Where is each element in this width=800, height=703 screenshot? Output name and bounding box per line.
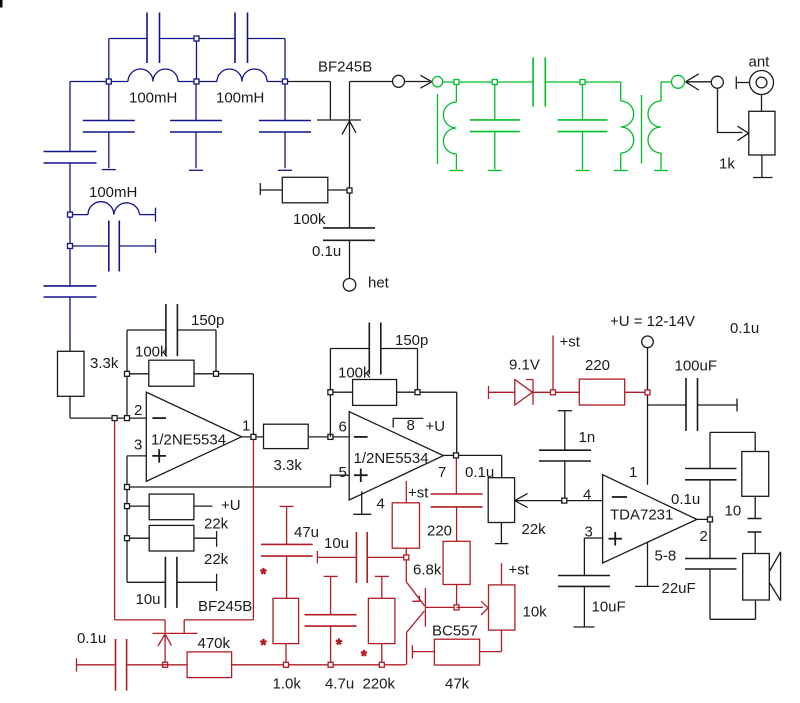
svg-text:TDA7231: TDA7231 (610, 507, 673, 524)
pin 5 wire (127, 475, 349, 487)
resistor 100k feedback (127, 373, 149, 375)
node (127,418.1) (125, 416, 130, 421)
svg-text:100k: 100k (135, 344, 168, 361)
capacitor green shunt 1 (494, 82, 496, 120)
capacitor green shunt 2 (582, 82, 584, 120)
node (330.4,392.2) (328, 390, 333, 395)
wire red from pin2 node down (115, 421, 166, 620)
svg-text:0.1u: 0.1u (312, 243, 341, 260)
wire to 10 resistor (710, 432, 755, 451)
svg-text:*: * (336, 636, 342, 653)
svg-text:+U: +U (426, 418, 446, 435)
svg-text:9.1V: 9.1V (509, 357, 540, 374)
svg-text:5-8: 5-8 (655, 548, 677, 565)
resistor 22k upper (127, 505, 149, 507)
svg-text:0.1u: 0.1u (671, 491, 700, 508)
svg-text:ant: ant (749, 54, 771, 71)
op-amp U3 TDA7231 triangle (603, 475, 697, 563)
node red (164.8,664.8) (163, 662, 168, 667)
resistor 220 (supply) (579, 379, 624, 405)
node red (286,664.8) (284, 662, 289, 667)
svg-text:6.8k: 6.8k (413, 562, 442, 579)
svg-text:22k: 22k (204, 516, 229, 533)
inductor L3 100mH (70, 214, 88, 216)
resistor 47k: open pin (411, 645, 413, 658)
svg-text:220k: 220k (363, 676, 396, 693)
capacitor C-top2 plates (235, 13, 248, 64)
svg-text:+st: +st (509, 562, 530, 579)
open pin under 10uF (574, 626, 595, 628)
node blue (196.5,81.5) (194, 79, 199, 84)
capacitor C-left (series in left column) (44, 152, 97, 164)
resistor 22k lower (127, 537, 149, 539)
potentiometer 22k box (488, 478, 514, 523)
arrow out of green filter (686, 74, 712, 90)
open pin under shunt cap 2 (576, 170, 590, 172)
capacitor C5 plates (44, 286, 97, 297)
open pin under 1k (753, 177, 773, 179)
minus sign U2 (354, 436, 368, 438)
open pin 5-8 bar (635, 585, 659, 587)
node blue (70,214.6) (68, 212, 73, 217)
node (114.6,418.1) (112, 416, 117, 421)
wire TDA output (697, 519, 710, 558)
svg-text:22k: 22k (522, 521, 547, 538)
svg-text:150p: 150p (191, 312, 224, 329)
resistor 220k: open pin (375, 575, 389, 577)
transistor Q3 BC557 (405, 560, 407, 582)
node (216,373.8) (214, 371, 219, 376)
svg-text:0.1u: 0.1u (730, 320, 759, 337)
capacitor 0.1u red (bottom left) (77, 664, 116, 666)
transistor Q2 BF245B (red) (165, 620, 184, 634)
open pin right of L3 (155, 208, 157, 222)
wire drain to terminal (350, 81, 393, 83)
svg-text:100k: 100k (293, 211, 326, 228)
terminal circle green in (432, 77, 442, 87)
capacitor 10u red: open pin (316, 551, 318, 563)
wire y=81.5 row (70, 81, 285, 83)
svg-text:*: * (261, 637, 267, 654)
transformer T1 secondary winding (660, 82, 662, 101)
output wire U2 (443, 454, 501, 456)
plus sign U2 (354, 469, 368, 483)
svg-text:100mH: 100mH (89, 184, 137, 201)
resistor 470k (187, 652, 232, 678)
capacitor 4.7u: open pin (324, 575, 338, 577)
svg-text:100mH: 100mH (216, 90, 264, 107)
wire red from U1 output down (184, 439, 253, 620)
open pin under shunt cap 1 (488, 170, 502, 172)
terminal circle +U (642, 336, 654, 348)
terminal circle het (343, 279, 356, 292)
open pin right of 100uF (736, 399, 738, 412)
ant connector circles (750, 71, 774, 95)
potentiometer 10k (501, 563, 503, 585)
capacitor 150p feedback (127, 329, 216, 331)
svg-text:*: * (261, 566, 267, 583)
node red (456.5,607.4) (454, 605, 459, 610)
svg-text:2: 2 (700, 528, 708, 545)
corner artifact (0, 0, 3, 8)
node (127,373.8) (125, 371, 130, 376)
terminal circle green out (672, 75, 685, 88)
node (349.5,190.5) (347, 188, 352, 193)
pin 3 wire (584, 538, 602, 576)
transistor Q1 BF245B (329, 82, 331, 121)
node red (647.5,392.4) (645, 390, 650, 395)
svg-text:1/2NE5534: 1/2NE5534 (354, 450, 429, 467)
node blue (285,81.5) (283, 79, 288, 84)
ant open pin (735, 77, 737, 90)
wiper arrow 22k pot (515, 494, 603, 508)
+st terminal wire (552, 335, 554, 392)
svg-text:10: 10 (725, 503, 742, 520)
pin 4 stub (361, 491, 363, 514)
open pin right of 10u (216, 574, 218, 591)
svg-text:220: 220 (585, 357, 610, 374)
svg-text:1k: 1k (719, 156, 735, 173)
node red (330.6,664.8) (328, 662, 333, 667)
svg-text:47k: 47k (445, 676, 470, 693)
node (127,506.1) (125, 504, 130, 509)
node (710,519.4) (708, 517, 713, 522)
wire 150p right vertical (215, 330, 217, 374)
svg-text:+U = 12-14V: +U = 12-14V (610, 313, 695, 330)
wire gate from blue node (287, 81, 330, 83)
svg-text:3.3k: 3.3k (274, 457, 303, 474)
svg-text:BF245B: BF245B (198, 598, 252, 615)
open pin under 22k pot (495, 543, 508, 545)
wire feedback left vertical U2 (329, 349, 331, 437)
capacitor C-mid2 (195, 82, 197, 169)
op-amp U2 triangle (349, 412, 443, 500)
resistor 10 (742, 452, 769, 497)
capacitor 0.1u (output RC) (685, 469, 737, 480)
svg-text:4.7u: 4.7u (325, 676, 354, 693)
wire output (242, 436, 264, 438)
node red (406.3,557.4) (404, 555, 409, 560)
capacitor 0.1u (het) (349, 193, 351, 228)
capacitor C-mid3 (284, 82, 286, 169)
node red (553,392.3) (551, 390, 556, 395)
svg-text:22k: 22k (204, 551, 229, 568)
svg-text:3: 3 (134, 437, 142, 454)
resistor 220 (red, +st) (405, 481, 407, 503)
svg-text:5: 5 (339, 464, 347, 481)
wire green top rail (443, 81, 672, 83)
wire top row y=38.5 (109, 38, 285, 40)
wire +U vertical to TDA pin1 (647, 348, 649, 485)
open pin 4 bar (353, 513, 371, 515)
terminal circle (het out) (393, 75, 405, 87)
open pin under C-mid1 (102, 169, 116, 171)
arrow into 1k pot (738, 126, 749, 141)
svg-text:470k: 470k (198, 635, 231, 652)
svg-text:+st: +st (560, 334, 581, 351)
capacitor C-top1 plates (147, 13, 160, 64)
transformer T1 primary winding (620, 82, 622, 101)
svg-text:4: 4 (377, 496, 385, 513)
speaker horn (769, 552, 780, 601)
transformer T1 core (641, 95, 643, 164)
open pin left of 0.1u (76, 658, 78, 671)
svg-text:10u: 10u (136, 591, 161, 608)
capacitor small (zobel) (748, 519, 762, 533)
minus sign U3 (612, 496, 627, 498)
wire main left vertical (69, 82, 71, 336)
node (330.4,436.9) (328, 434, 333, 439)
node green (456.4,82) (454, 80, 459, 85)
capacitor 100uF (648, 404, 687, 406)
svg-text:7: 7 (438, 464, 446, 481)
node green (494.8,82) (492, 80, 497, 85)
op-amp U1 triangle (146, 392, 241, 481)
resistor 100k U2 (330, 391, 352, 393)
wire U2 output to pot (501, 455, 503, 477)
capacitor 0.1u red (U2 output) (455, 458, 457, 494)
node blue (108.8,81.5) (106, 79, 111, 84)
pin 8 stub (393, 418, 423, 427)
svg-text:1/2NE5534: 1/2NE5534 (151, 432, 226, 449)
node red (381.8,664.8) (379, 662, 384, 667)
svg-text:+U: +U (221, 497, 241, 514)
open pin above 1n (558, 410, 572, 412)
capacitor 47u: open pin (280, 505, 294, 507)
zener diode 9.1V (515, 380, 533, 406)
svg-text:1n: 1n (579, 429, 596, 446)
capacitor 10uF (558, 576, 610, 587)
svg-text:220: 220 (427, 523, 452, 540)
resistor 3.3k input (from blue chain) (69, 335, 71, 351)
node blue (196.5,38.5) (194, 36, 199, 41)
svg-text:3: 3 (585, 524, 593, 541)
capacitor 10u (black) (127, 581, 165, 583)
plus sign U3 (609, 532, 623, 546)
svg-text:1: 1 (242, 418, 250, 435)
svg-text:100uF: 100uF (675, 358, 718, 375)
open pin under input winding (449, 170, 463, 172)
svg-text:het: het (368, 275, 390, 292)
minus sign U1 (152, 417, 166, 419)
capacitor 150p U2 (330, 348, 417, 350)
svg-text:3.3k: 3.3k (90, 355, 119, 372)
resistor 100k box (260, 189, 282, 191)
svg-text:150p: 150p (395, 332, 428, 349)
wiper arrow into 10k pot (457, 601, 489, 615)
svg-text:BC557: BC557 (432, 623, 478, 640)
node green (582.5,82) (580, 80, 585, 85)
node (253.4,436.9) (251, 434, 256, 439)
svg-text:*: * (361, 648, 367, 665)
node blue (70,246) (68, 244, 73, 249)
open pin left of zener (488, 386, 490, 399)
speaker box (743, 554, 770, 601)
node (127,538.2) (125, 536, 130, 541)
open pin right of C4 (155, 239, 157, 253)
plus sign U1 (152, 449, 166, 462)
open pin under secondary (654, 170, 668, 172)
capacitor C-mid1 (108, 82, 110, 169)
svg-text:10uF: 10uF (592, 599, 626, 616)
resistor 100k (gate bias) open pin (259, 183, 261, 195)
terminal circle (711, 76, 723, 88)
resistor 3.3k interstage (264, 424, 309, 448)
svg-text:1: 1 (629, 464, 637, 481)
resistor 6.8k (443, 541, 470, 584)
svg-text:10u: 10u (324, 535, 349, 552)
svg-text:+st: +st (408, 485, 429, 502)
svg-text:6: 6 (339, 419, 347, 436)
capacitor C4 (parallel to L3) (70, 245, 156, 247)
svg-text:100k: 100k (338, 365, 371, 382)
inductor L2 100mH (217, 69, 267, 82)
open pin right of 22k lower (216, 531, 218, 547)
wire corner verticals top row (109, 39, 285, 82)
svg-text:4: 4 (583, 487, 591, 504)
svg-text:100mH: 100mH (129, 90, 177, 107)
resistor 1.0k (273, 598, 299, 643)
arrow into green filter (405, 75, 432, 88)
wire bottom rail (232, 664, 406, 666)
open pin under C-mid2 (189, 169, 203, 171)
wire down to pot arrow (718, 88, 743, 132)
capacitor 22uF (685, 559, 737, 570)
svg-text:2: 2 (134, 402, 142, 419)
capacitor 1n (564, 411, 566, 451)
svg-text:1.0k: 1.0k (273, 676, 302, 693)
pin 3 wire (127, 456, 146, 582)
svg-text:8: 8 (407, 417, 415, 434)
svg-text:0.1u: 0.1u (465, 464, 494, 481)
svg-text:22uF: 22uF (662, 580, 696, 597)
pin 5-8 stub (647, 543, 649, 587)
svg-text:0.1u: 0.1u (77, 630, 106, 647)
wire feedback to output (216, 374, 253, 437)
capacitor green series (533, 58, 545, 107)
svg-text:10k: 10k (523, 604, 548, 621)
wire feedback left vertical (126, 330, 128, 418)
node (417.5,392.2) (415, 390, 420, 395)
inductor L1 100mH (128, 69, 178, 82)
wire feedback to output U2 (418, 392, 457, 455)
node (456,455.4) (454, 453, 459, 458)
inductor input winding (455, 82, 457, 102)
open pin under primary (614, 170, 628, 172)
svg-text:47u: 47u (294, 524, 319, 541)
node (127,487) (125, 485, 130, 490)
open pin under C-mid3 (278, 169, 292, 171)
potentiometer 1k box (761, 95, 763, 112)
inductor (input coil with core) core line (437, 94, 439, 164)
svg-text:BF245B: BF245B (318, 59, 372, 76)
node (564.3,500.6) (562, 498, 567, 503)
